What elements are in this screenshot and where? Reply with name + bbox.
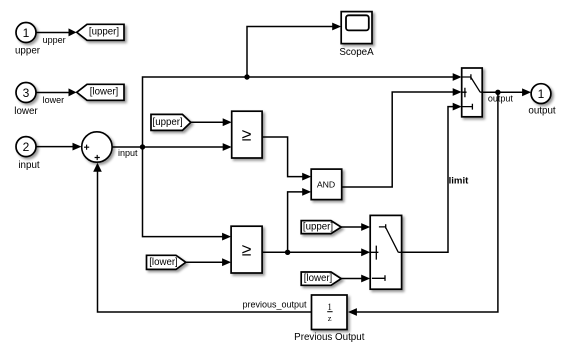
signal label previous_output <box>242 299 307 309</box>
signal label upper <box>43 35 66 45</box>
svg-text:≥: ≥ <box>242 239 252 259</box>
from tag [lower] (to Switch2) <box>301 272 341 285</box>
relational operator U2 (>=) <box>231 226 262 273</box>
wire From[upper] to RelOp1 upper pin <box>191 118 232 126</box>
wire RelOp2 output <box>262 251 288 253</box>
svg-text:2: 2 <box>23 140 30 154</box>
svg-text:AND: AND <box>317 179 335 189</box>
svg-text:[lower]: [lower] <box>304 273 333 284</box>
wire Previous Output to Sum lower pin <box>93 163 311 312</box>
svg-text:≥: ≥ <box>242 124 252 144</box>
wire Inport3 to Goto[lower] <box>37 88 77 96</box>
svg-text:limit: limit <box>449 176 470 187</box>
svg-text:[upper]: [upper] <box>153 117 183 128</box>
signal label limit <box>449 176 470 187</box>
wire input to RelOp1 lower pin <box>143 143 232 151</box>
svg-text:ScopeA: ScopeA <box>339 47 374 58</box>
switch block Switch1 <box>462 68 483 117</box>
outport 1 (output) <box>531 84 551 104</box>
wire junction to ScopeA <box>247 23 341 77</box>
inport 3 (lower) <box>16 83 36 103</box>
relational operator U1 (>=) <box>232 111 262 158</box>
svg-text:[upper]: [upper] <box>303 222 333 233</box>
port label output <box>528 106 556 117</box>
signal label input <box>118 148 138 158</box>
node junction B on RelOp2 output <box>285 250 290 255</box>
from tag [lower] (to RelOp2) <box>147 255 186 269</box>
wire Switch2 output up to Switch1 pin3 (limit) <box>402 103 462 253</box>
unit delay block Previous Output (1/z) <box>312 295 348 330</box>
svg-text:1: 1 <box>538 87 545 101</box>
svg-text:output: output <box>528 106 556 117</box>
wire Inport1 to Goto[upper] <box>37 28 77 36</box>
svg-text:Previous Output: Previous Output <box>294 332 365 343</box>
svg-text:1: 1 <box>23 26 30 40</box>
from tag [upper] (to RelOp1) <box>151 114 191 130</box>
block label ScopeA <box>339 47 374 58</box>
switch block Switch2 <box>370 215 401 289</box>
wire AND output to Switch1 pin2 <box>342 88 462 187</box>
signal label output <box>488 93 514 103</box>
wire feedback output down to Previous Output <box>348 92 498 316</box>
svg-text:z: z <box>328 313 332 323</box>
node junction C on output signal <box>495 90 500 95</box>
scope block ScopeA <box>341 12 372 44</box>
goto tag [upper] <box>77 24 124 40</box>
svg-text:output: output <box>488 93 514 103</box>
wire From[upper] to Switch2 pin1 <box>341 223 370 231</box>
block label Previous Output <box>294 332 365 343</box>
wire Switch1 output to Outport <box>482 88 531 96</box>
signal label lower <box>43 95 65 105</box>
svg-text:lower: lower <box>43 95 65 105</box>
svg-text:input: input <box>118 148 138 158</box>
svg-text:upper: upper <box>15 46 41 57</box>
wire Sum output (input signal) <box>112 146 142 148</box>
port label upper <box>15 46 41 57</box>
svg-text:3: 3 <box>23 86 30 100</box>
from tag [upper] (to Switch2) <box>301 221 341 234</box>
svg-text:[upper]: [upper] <box>89 27 119 38</box>
port label input <box>18 160 40 171</box>
wire From[lower] to Switch2 pin3 <box>341 275 370 283</box>
port label lower <box>14 106 38 117</box>
logical operator AND <box>311 169 342 200</box>
wire From[lower] to RelOp2 lower pin <box>186 258 231 266</box>
svg-text:input: input <box>18 160 40 171</box>
svg-text:[lower]: [lower] <box>149 257 178 268</box>
inport 1 (upper) <box>16 23 36 43</box>
svg-text:upper: upper <box>43 35 66 45</box>
wire RelOp2 output to Switch2 control pin <box>288 248 371 256</box>
inport 2 (input) <box>16 137 36 157</box>
goto tag [lower] <box>77 84 124 100</box>
node junction A on input signal <box>140 144 145 149</box>
svg-text:lower: lower <box>14 106 38 117</box>
wire RelOp1 output to AND pin1 <box>262 137 311 181</box>
wire RelOp2 output up to AND pin2 <box>288 188 312 252</box>
svg-text:1: 1 <box>327 302 332 312</box>
sum block <box>82 132 112 162</box>
svg-text:[lower]: [lower] <box>90 87 119 98</box>
wire input down to RelOp2 upper pin <box>143 147 232 241</box>
svg-text:previous_output: previous_output <box>242 299 307 309</box>
node junction to ScopeA <box>244 74 249 79</box>
wire Inport2 to Sum <box>37 143 82 151</box>
wire input up and across to Switch1 pin1 <box>143 73 462 147</box>
